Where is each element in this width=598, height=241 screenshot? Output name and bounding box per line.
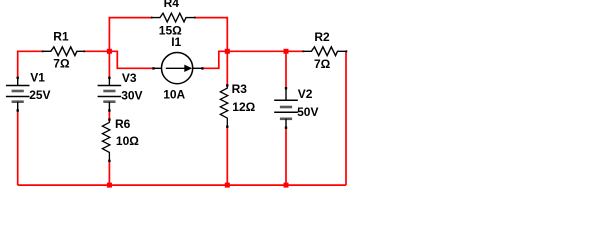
svg-text:12Ω: 12Ω <box>232 100 255 114</box>
wire node A to I1 left <box>109 51 153 68</box>
svg-text:25V: 25V <box>29 88 50 102</box>
junction node C (V2/R2) <box>284 49 289 54</box>
svg-text:7Ω: 7Ω <box>53 57 70 71</box>
resistor R6 <box>102 118 110 162</box>
junction bottom R3 <box>225 183 230 188</box>
resistor R4 <box>151 13 196 22</box>
svg-text:50V: 50V <box>297 105 318 119</box>
svg-text:10Ω: 10Ω <box>116 134 139 148</box>
wire V3 to R6 <box>108 111 110 119</box>
wire node C to R2 <box>286 50 303 52</box>
svg-text:30V: 30V <box>121 88 142 102</box>
wire I1 right to node B <box>202 51 227 68</box>
svg-text:I1: I1 <box>171 35 181 49</box>
wire V2 bottom down <box>285 128 287 185</box>
wire V1 top to R1 <box>18 51 43 77</box>
resistor R2 <box>302 47 347 56</box>
wire R1 to node A <box>84 50 109 52</box>
battery V1 <box>6 77 30 112</box>
wire R3 bottom down <box>226 127 228 185</box>
svg-text:7Ω: 7Ω <box>314 57 331 71</box>
svg-text:R1: R1 <box>53 30 69 44</box>
wire top branch right (R4 to R3 junction) <box>195 18 228 52</box>
svg-text:V3: V3 <box>122 71 137 85</box>
wire R2 right side down <box>345 51 347 185</box>
wire node C down to V2 <box>285 51 287 87</box>
wire top branch left (node from R1/V3 junction up to R4) <box>109 18 151 52</box>
wire node A down to V3 <box>108 51 110 77</box>
svg-text:R3: R3 <box>232 82 248 96</box>
resistor R1 <box>42 47 85 56</box>
junction node B (R4/I1/R3) <box>225 49 230 54</box>
resistor R3 <box>220 84 228 128</box>
wire node B to node C <box>227 50 286 52</box>
svg-text:R2: R2 <box>314 30 330 44</box>
wire bottom rail <box>18 184 346 186</box>
svg-text:R6: R6 <box>115 117 131 131</box>
wire R6 bottom down <box>108 161 110 185</box>
svg-text:10A: 10A <box>163 88 185 102</box>
wire V1 bottom down <box>17 111 19 185</box>
current source I1 <box>152 53 203 84</box>
svg-text:R4: R4 <box>164 0 180 10</box>
junction bottom V2 <box>284 183 289 188</box>
battery V3 <box>98 77 122 112</box>
junction node A (R1/V3/I1/R4) <box>107 49 112 54</box>
wire node B down to R3 <box>226 51 228 85</box>
svg-text:V2: V2 <box>298 87 313 101</box>
battery V2 <box>274 87 298 129</box>
junction bottom R6 <box>107 183 112 188</box>
svg-text:V1: V1 <box>30 71 45 85</box>
